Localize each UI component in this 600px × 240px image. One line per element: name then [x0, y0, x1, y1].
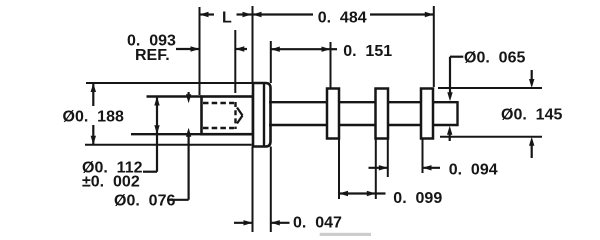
Ø0.145 bottom up arrow	[529, 137, 534, 146]
Ø0.065 lower arrow shaft	[449, 133, 451, 141]
extension line flange right above	[270, 41, 272, 83]
extension line ring3 left below	[422, 139, 424, 173]
extension line body left (for L and 0.093)	[199, 7, 201, 95]
Ø0.188 up arrow	[91, 83, 96, 92]
svg-text:0. 047: 0. 047	[293, 215, 342, 232]
dimension 0.099 line	[339, 192, 386, 194]
dimension 0.047 left arrow	[244, 220, 253, 225]
dimension 0.484 line left segment	[253, 13, 314, 15]
scan smudge artifact	[320, 233, 371, 236]
dimension 0.099 left arrow	[339, 191, 348, 196]
ring 2	[376, 89, 389, 139]
Ø0.076 elbow stub	[167, 199, 189, 201]
svg-text:L: L	[222, 9, 232, 26]
ring 3	[421, 89, 433, 139]
svg-text:0. 099: 0. 099	[393, 190, 442, 207]
dimension 0.151 text stub	[331, 48, 338, 50]
dimension 0.094 right arrow	[423, 165, 432, 170]
dimension 0.047 right arrow shaft	[271, 222, 290, 224]
svg-text:Ø0. 145: Ø0. 145	[501, 106, 562, 123]
dimension 0.151 right arrow	[322, 47, 331, 52]
dimension 0.484 left arrow	[253, 12, 262, 17]
Ø0.112 down arrow	[154, 125, 159, 134]
dimension 0.094 left arrow	[379, 165, 388, 170]
dimension 0.047 right arrow	[271, 220, 280, 225]
body top extension stub	[147, 95, 202, 97]
Ø0.112 elbow stub	[143, 171, 157, 173]
Ø0.112 up arrow	[154, 97, 159, 106]
Ø0.145 top down arrow	[529, 79, 534, 88]
leader Ø0.065 elbow stub	[450, 56, 463, 58]
svg-text:±0. 002: ±0. 002	[82, 174, 140, 191]
dimension 0.093 right arrow shaft	[235, 48, 247, 50]
svg-text:Ø0. 065: Ø0. 065	[464, 50, 525, 67]
dimension 0.151 line	[271, 48, 331, 50]
leader Ø0.065 down arrow	[447, 92, 452, 101]
extension line flange right below	[270, 147, 272, 233]
Ø0.076 down arrow	[186, 94, 191, 103]
extension line flange left above	[252, 6, 254, 83]
body outline (Ø0.112 barrel)	[202, 97, 254, 135]
dimension 0.093 right arrow	[235, 46, 244, 51]
Ø0.145 top extension line	[438, 87, 542, 89]
Ø0.076 up arrow	[186, 128, 191, 137]
dimension 0.047 left arrow shaft	[234, 222, 253, 224]
svg-text:0. 094: 0. 094	[449, 161, 498, 178]
Ø0.076 lower line	[188, 134, 190, 200]
Ø0.188 bottom extension line	[85, 144, 252, 146]
dimension 0.093 left arrow	[191, 46, 200, 51]
shaft end cap	[456, 101, 458, 126]
Ø0.076 upper arrow shaft	[188, 92, 190, 96]
drill point chevron upper	[237, 108, 243, 116]
shaft bottom line	[269, 124, 458, 126]
hidden hole dashed bottom line	[203, 127, 234, 129]
extension line ring2 left below	[375, 139, 377, 199]
extension line hole depth x=235	[234, 30, 236, 93]
dimension 0.094 left arrow shaft	[369, 167, 388, 169]
svg-text:REF.: REF.	[135, 47, 170, 64]
extension line ring1 left above	[330, 42, 332, 88]
ring 1	[327, 89, 339, 139]
dimension L line left segment	[200, 13, 215, 15]
svg-text:0. 484: 0. 484	[318, 9, 367, 26]
Ø0.145 bottom arrow shaft	[531, 144, 533, 158]
Ø0.188 down arrow	[91, 136, 96, 145]
Ø0.112 dim line	[156, 97, 158, 172]
dimension L line right segment	[237, 13, 252, 15]
Ø0.145 top arrow shaft	[531, 70, 533, 81]
dimension 0.094 right arrow shaft	[423, 167, 441, 169]
dimension 0.484 line right segment	[370, 13, 434, 15]
Ø0.065 lower up arrow	[447, 126, 452, 135]
body bottom extension stub	[131, 133, 202, 135]
extension line ring3 right above	[433, 6, 435, 87]
hidden hole dashed top line	[203, 102, 234, 104]
Ø0.188 top extension line	[86, 82, 253, 84]
shaft top line	[269, 101, 458, 103]
svg-text:0. 151: 0. 151	[343, 43, 392, 60]
hidden hole dashed end vertical	[234, 102, 236, 129]
dimension 0.093 left arrow shaft	[176, 48, 200, 50]
flange outline	[253, 83, 271, 147]
extension line flange left below	[252, 147, 254, 233]
extension line ring1 right below	[338, 139, 340, 199]
Ø0.188 dim line upper segment	[92, 83, 94, 106]
dimension L left arrow	[200, 12, 209, 17]
leader Ø0.065 vertical	[449, 57, 451, 94]
svg-text:Ø0. 076: Ø0. 076	[114, 193, 175, 210]
Ø0.188 dim line lower segment	[92, 125, 94, 145]
Ø0.145 bottom extension line	[440, 136, 542, 138]
svg-text:Ø0. 188: Ø0. 188	[63, 109, 124, 126]
dimension L right arrow	[243, 12, 252, 17]
extension line ring2 right below	[387, 139, 389, 177]
dimension 0.484 right arrow	[425, 12, 434, 17]
dimension 0.099 right arrow	[367, 191, 376, 196]
drill point chevron lower	[237, 116, 243, 124]
flange inner edge line	[263, 84, 265, 147]
dimension 0.151 left arrow	[271, 47, 280, 52]
